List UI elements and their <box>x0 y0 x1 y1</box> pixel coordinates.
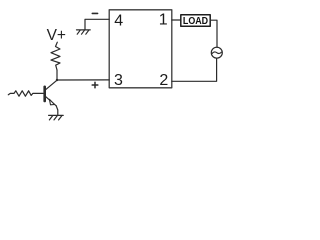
node A junction <box>56 79 58 81</box>
V+ label <box>47 27 66 44</box>
pin 1 label <box>159 12 168 29</box>
svg-text:4: 4 <box>114 12 123 29</box>
ground (bottom, chassis) <box>49 115 64 120</box>
AC source V1 <box>211 47 222 58</box>
svg-text:1: 1 <box>159 12 168 29</box>
svg-text:3: 3 <box>114 72 123 89</box>
SSR box U1 <box>109 10 172 88</box>
pin 4 label <box>114 12 123 29</box>
pin 3 label <box>114 72 123 89</box>
svg-text:V+: V+ <box>47 27 66 44</box>
minus label at pin 4 <box>92 12 97 14</box>
resistor R2 (vertical from V+) <box>51 42 60 70</box>
pin 2 label <box>159 72 168 89</box>
wire emitter to ground <box>56 106 58 115</box>
wire LOAD to AC source <box>210 20 217 47</box>
ground (top, chassis) <box>77 30 91 34</box>
LOAD box <box>181 15 210 27</box>
wire AC source to pin 2 <box>172 58 217 81</box>
wire pin4 to ground <box>85 19 109 30</box>
transistor Q1 (NPN) <box>45 80 57 106</box>
node A wire to pin 3 <box>57 79 109 81</box>
plus label at pin 3 <box>92 82 98 88</box>
wire pin1 to LOAD <box>172 19 181 21</box>
resistor R1 (horizontal base resistor) <box>8 91 43 96</box>
svg-text:2: 2 <box>159 72 168 89</box>
wire R2 bottom to node A <box>56 70 58 80</box>
svg-text:LOAD: LOAD <box>183 15 209 27</box>
